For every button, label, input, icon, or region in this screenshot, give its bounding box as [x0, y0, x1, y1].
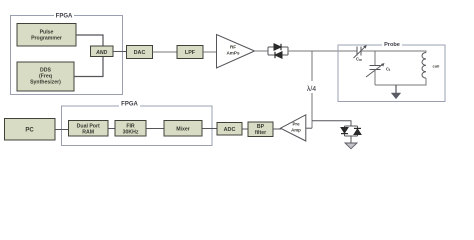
svg-text:AmPs: AmPs	[226, 51, 239, 56]
wire BP filter to Pre Amp	[273, 128, 281, 130]
wire LPF to RF amplifier	[203, 51, 216, 53]
svg-text:coil: coil	[433, 64, 440, 69]
ground (receive diode clamp)	[345, 136, 357, 149]
wire Ct to bottom rail	[374, 70, 376, 86]
diode D4 (points up, right branch)	[354, 128, 361, 134]
wire quarter-wave line (lambda/4) vertical	[311, 51, 313, 128]
svg-text:t: t	[389, 68, 391, 72]
svg-text:filter: filter	[255, 130, 266, 136]
svg-text:Programmer: Programmer	[31, 36, 62, 42]
block Pulse Programmer	[17, 24, 76, 47]
inductor coil	[422, 53, 439, 79]
wire PC to Dual Port RAM	[55, 129, 69, 131]
wire branch to receive protection diodes	[312, 121, 351, 126]
svg-text:λ/4: λ/4	[307, 86, 316, 93]
diode D2 (points left, bottom branch)	[275, 52, 282, 58]
svg-text:FPGA: FPGA	[121, 102, 138, 108]
svg-text:Pre: Pre	[292, 122, 300, 127]
Probe container	[338, 40, 445, 102]
wire Mixer to ADC	[202, 128, 217, 130]
svg-text:FPGA: FPGA	[56, 14, 73, 20]
svg-text:PC: PC	[25, 128, 34, 134]
svg-text:LPF: LPF	[185, 50, 196, 56]
svg-text:Probe: Probe	[384, 42, 400, 48]
crossed diode clamp loop (receive)	[345, 126, 358, 136]
FPGA container (receive section)	[62, 100, 213, 146]
wire AND to DAC	[113, 51, 127, 53]
wire DAC to LPF	[153, 51, 178, 53]
wire Pulse Programmer to AND gate	[76, 35, 103, 46]
wire DDS to AND gate	[74, 57, 103, 77]
wire Dual Port RAM to FIR	[108, 128, 115, 130]
wire ADC to BP filter	[242, 128, 248, 130]
svg-text:30KHz: 30KHz	[123, 130, 139, 136]
wire crossed diodes to probe	[288, 50, 357, 52]
block FIR 30KHz	[115, 121, 146, 137]
block Dual Port RAM	[69, 121, 109, 137]
svg-text:RF: RF	[230, 45, 236, 50]
diode D1 (points right, top branch)	[274, 44, 281, 50]
ground (probe tank)	[391, 85, 400, 99]
capacitor Cm (matching, variable)	[354, 45, 367, 62]
svg-text:Amp: Amp	[291, 128, 301, 133]
block ADC	[217, 123, 242, 136]
svg-text:Synthesizer): Synthesizer)	[30, 80, 61, 86]
amplifier Pre Amp (points left)	[281, 115, 306, 141]
svg-text:DAC: DAC	[134, 50, 146, 56]
crossed diode pair (transmit) loop	[268, 47, 288, 55]
block Mixer	[164, 121, 202, 137]
wire Pre Amp input to lambda/4 node	[306, 127, 312, 129]
block PC	[5, 119, 56, 141]
label lambda/4	[302, 81, 321, 93]
block LPF	[177, 46, 203, 59]
block BP filter	[248, 122, 273, 137]
wire tank node down to Ct	[374, 51, 376, 66]
amplifier RF AmPs	[217, 35, 255, 69]
gate AND	[91, 46, 114, 57]
wire FIR to Mixer	[146, 128, 164, 130]
capacitor Ct (tuning, variable)	[366, 63, 391, 77]
diode D3 (points down, left branch)	[341, 128, 348, 134]
wire coil to bottom rail	[375, 78, 426, 85]
FPGA container (transmit section)	[11, 12, 123, 95]
wire tank node to coil	[375, 51, 426, 53]
wire RF amp to crossed diodes	[255, 50, 269, 52]
wire Cm to tank node	[361, 50, 375, 52]
svg-text:m: m	[359, 58, 362, 62]
svg-text:ADC: ADC	[224, 127, 236, 133]
svg-text:AND: AND	[95, 50, 107, 56]
block DAC	[127, 46, 153, 59]
svg-text:Mixer: Mixer	[176, 127, 190, 133]
block DDS (Freq Synthesizer)	[17, 62, 74, 91]
svg-text:RAM: RAM	[82, 130, 94, 136]
